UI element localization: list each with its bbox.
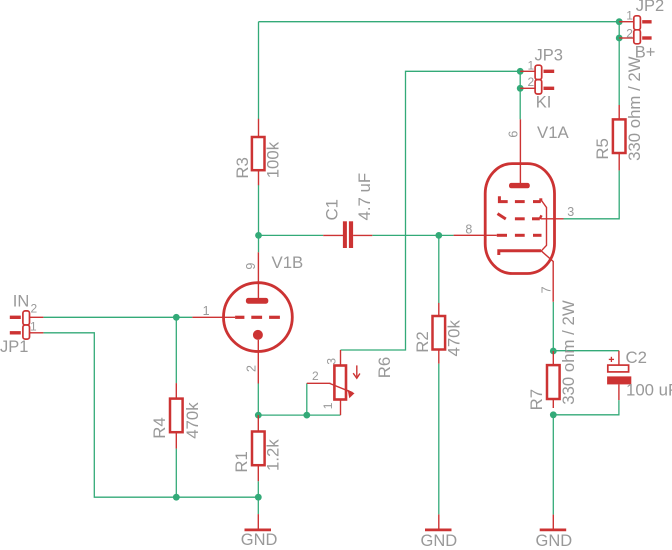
connector JP3 (520, 65, 554, 94)
wire C2 bottom to R7 bottom (553, 400, 619, 415)
wire IN pin2 to V1B grid (43, 316, 192, 318)
svg-text:470k: 470k (183, 402, 202, 439)
svg-text:R5: R5 (593, 138, 612, 159)
resistor R4 (170, 383, 183, 449)
resistor R2 (433, 303, 446, 364)
node junction C1/R2/pin8 (435, 232, 442, 239)
svg-text:3: 3 (567, 205, 574, 219)
svg-text:JP3: JP3 (535, 47, 563, 65)
node junction R4 top (173, 314, 180, 321)
connector JP1 (10, 311, 44, 339)
wire V1A pin7 to R7 (552, 302, 554, 351)
svg-text:JP2: JP2 (636, 0, 664, 15)
capacitor C1 (323, 221, 372, 248)
svg-text:2: 2 (626, 27, 633, 41)
svg-text:2: 2 (244, 365, 258, 372)
svg-text:7: 7 (539, 286, 553, 293)
wire R4 top (175, 317, 177, 383)
wire R2 bottom to GND (438, 364, 440, 515)
svg-text:2: 2 (312, 369, 319, 383)
node junction R3/C1/V1B plate (255, 232, 262, 239)
wire B+ top horizontal (259, 21, 620, 23)
wire R3 top (258, 22, 260, 119)
svg-text:470k: 470k (445, 320, 464, 357)
svg-text:330 ohm / 2W: 330 ohm / 2W (559, 300, 578, 405)
wire R4 bottom (175, 449, 177, 498)
svg-text:330 ohm / 2W: 330 ohm / 2W (625, 56, 644, 161)
node junction JP3 pin2 (517, 85, 524, 92)
svg-text:3: 3 (325, 358, 339, 365)
svg-text:R7: R7 (527, 389, 546, 410)
svg-text:JP1: JP1 (0, 338, 28, 356)
svg-text:R6: R6 (375, 357, 394, 378)
resistor R1 (252, 415, 265, 481)
svg-text:GND: GND (421, 532, 458, 550)
svg-text:1: 1 (30, 319, 37, 333)
node junction R7 top / C2 (550, 348, 557, 355)
svg-text:1: 1 (626, 9, 633, 23)
svg-text:R1: R1 (232, 451, 251, 472)
wire R7 bottom to GND (552, 415, 554, 515)
capacitor C2 (607, 351, 631, 400)
node junction R6 pin2 (303, 412, 310, 419)
svg-text:V1A: V1A (537, 123, 570, 142)
tube V1B (192, 252, 292, 383)
svg-text:4.7 uF: 4.7 uF (355, 173, 374, 221)
trimmer R6 (307, 350, 360, 415)
wire R3 bottom / C1 left node (258, 185, 260, 252)
svg-text:R3: R3 (233, 157, 252, 178)
svg-text:GND: GND (241, 531, 278, 549)
wire R6 pin2 vertical (306, 383, 308, 415)
wire R5 bottom to V1A pin3 (564, 170, 620, 218)
svg-text:IN: IN (13, 292, 30, 310)
svg-text:6: 6 (506, 131, 520, 138)
wire JP3 pins vertical (519, 71, 521, 119)
wire KI net JP3 to R6 pin3 (341, 71, 521, 350)
resistor R3 (252, 119, 265, 185)
svg-text:8: 8 (465, 222, 472, 236)
node junction JP2 pin1 (616, 18, 623, 25)
wire B+ vertical to R5 (618, 22, 620, 105)
node junction JP3 pin1 (517, 68, 524, 75)
svg-text:1: 1 (203, 304, 210, 318)
tube V1A (454, 119, 564, 301)
svg-text:2: 2 (31, 301, 38, 315)
ground GND right (540, 515, 567, 530)
svg-text:1: 1 (321, 402, 335, 409)
svg-text:100 uF: 100 uF (626, 381, 672, 400)
svg-text:C2: C2 (626, 348, 647, 367)
wire R1 bottom to GND (257, 481, 259, 514)
wire C1 right to V1A pin8 (372, 234, 453, 236)
node junction cathode / R1 / R6 (255, 412, 262, 419)
wire cathode node to R6 pin1 (258, 414, 340, 416)
svg-text:KI: KI (536, 94, 552, 112)
wire IN pin1 down and along bottom (43, 333, 258, 497)
svg-text:9: 9 (244, 263, 258, 270)
svg-text:2: 2 (528, 75, 535, 89)
wire R2 top (438, 235, 440, 303)
node junction R7 bottom / C2 (550, 411, 557, 418)
resistor R7 (547, 351, 560, 408)
connector JP2 (619, 16, 651, 44)
node junction bottom rail / R1 (255, 494, 262, 501)
svg-text:V1B: V1B (272, 253, 304, 272)
wire V1B cathode down (257, 384, 259, 416)
ground GND middle (425, 514, 452, 530)
svg-text:R4: R4 (150, 417, 169, 438)
svg-text:R2: R2 (413, 331, 432, 352)
wire node to C1 (259, 234, 324, 236)
svg-text:C1: C1 (323, 199, 342, 220)
resistor R5 (613, 105, 626, 170)
node junction JP2 pin2 (616, 35, 623, 42)
svg-text:1.2k: 1.2k (264, 439, 283, 471)
wire R7 top to C2 top (553, 350, 619, 352)
svg-text:GND: GND (536, 532, 573, 550)
ground GND left (245, 514, 272, 530)
svg-text:1: 1 (528, 58, 535, 72)
svg-text:100k: 100k (264, 141, 283, 178)
node junction R4 bottom (173, 494, 180, 501)
